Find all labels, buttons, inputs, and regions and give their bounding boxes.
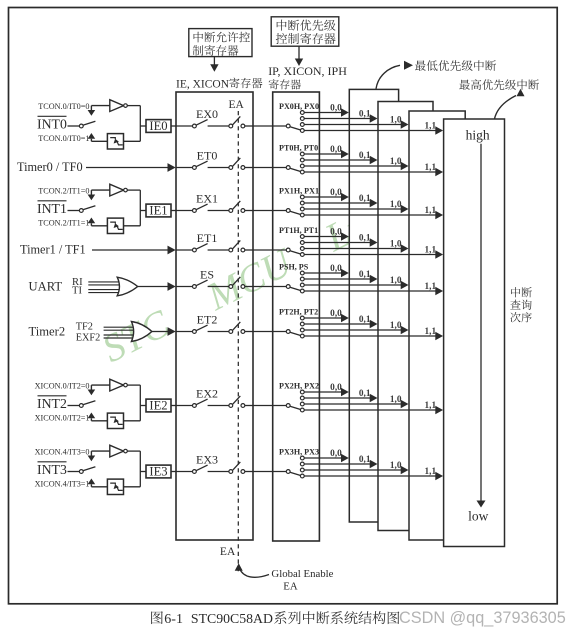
label TCON.2/IT1=0 — [38, 186, 89, 195]
wire edge detector output — [124, 140, 141, 142]
priority selector switch (PX2H, PX2) — [286, 404, 300, 410]
svg-text:TCON.0/IT0=0: TCON.0/IT0=0 — [38, 102, 89, 111]
svg-text:1,1: 1,1 — [424, 282, 436, 292]
svg-text:TI: TI — [72, 286, 82, 297]
svg-text:1,0: 1,0 — [390, 461, 402, 471]
priority line 1,0 (PT2H, PT2) — [304, 321, 408, 334]
svg-text:0,1: 0,1 — [359, 233, 371, 243]
label interrupt polling order — [510, 287, 532, 322]
label EA below column — [220, 546, 236, 558]
svg-text:EA: EA — [220, 546, 236, 558]
priority line 1,1 (PT2H, PT2) — [304, 327, 443, 340]
input pin INT3 — [37, 462, 67, 477]
svg-text:EX3: EX3 — [196, 452, 218, 466]
enable switch EX1 — [176, 191, 229, 212]
wire merge node — [140, 385, 146, 421]
svg-text:1,1: 1,1 — [424, 206, 436, 216]
priority line 1,1 (PSH, PS) — [304, 282, 443, 295]
edge detector INT3 — [107, 479, 123, 494]
svg-text:PSH, PS: PSH, PS — [279, 263, 309, 272]
svg-text:XICON.0/IT2=1: XICON.0/IT2=1 — [35, 414, 90, 423]
wire EX3 to priority selector — [253, 471, 286, 473]
svg-text:TCON.2/IT1=1: TCON.2/IT1=1 — [38, 219, 89, 228]
svg-text:TCON.2/IT1=0: TCON.2/IT1=0 — [38, 186, 89, 195]
EA global-enable dashed line — [237, 111, 239, 573]
svg-text:Global Enable: Global Enable — [271, 568, 333, 580]
enable switch ET0 — [176, 148, 229, 169]
arrow from priority-register box to IP column — [295, 46, 303, 66]
input UART — [29, 277, 84, 297]
priority line 0,1 (PSH, PS) — [304, 270, 377, 283]
priority line 0,0 (PX3H, PX3) — [304, 449, 349, 462]
svg-text:STCMCULtd: STCMCULtd — [95, 197, 385, 371]
priority line 0,0 (PX1H, PX1) — [304, 188, 349, 201]
wire from pin to selector switch — [68, 210, 80, 212]
edge detector INT0 — [107, 134, 123, 149]
wire ET2 to priority selector — [253, 331, 286, 333]
svg-text:1,1: 1,1 — [424, 467, 436, 477]
priority level column 1,0 — [409, 111, 465, 540]
priority selector switch (PT0H, PT0) — [286, 166, 300, 172]
svg-text:XICON.0/IT2=0: XICON.0/IT2=0 — [35, 381, 90, 390]
priority selector switch (PSH, PS) — [286, 285, 300, 291]
svg-text:0,1: 0,1 — [359, 151, 371, 161]
interrupt flag latch IE3 — [146, 465, 171, 479]
input Timer0 / TF0 — [17, 160, 83, 174]
priority selector switch (PX0H, PX0) — [286, 124, 300, 130]
svg-text:PT2H, PT2: PT2H, PT2 — [279, 308, 318, 317]
priority level contacts (PSH, PS) — [300, 271, 304, 293]
selector switch (trigger mode) — [79, 121, 95, 128]
svg-text:XICON.4/IT3=1: XICON.4/IT3=1 — [35, 480, 90, 489]
svg-text:0,0: 0,0 — [330, 383, 342, 393]
lower contact (edge trigger) — [88, 479, 108, 487]
IP XICON IPH register column box — [273, 92, 320, 541]
svg-text:STC90C58AD: STC90C58AD — [191, 611, 273, 626]
svg-text:Timer0 / TF0: Timer0 / TF0 — [17, 160, 83, 174]
watermark STC MCU Ltd — [95, 197, 385, 371]
wire EX1 to priority selector — [253, 210, 286, 212]
priority line 1,1 (PT0H, PT0) — [304, 163, 443, 176]
wire edge detector output — [124, 420, 141, 422]
priority level column 0,1 — [378, 102, 433, 531]
EA master switch on row EX3 — [229, 462, 253, 474]
svg-text:0,1: 0,1 — [359, 389, 371, 399]
lower contact (edge trigger) — [88, 413, 108, 421]
priority group label PT0H, PT0 — [279, 144, 318, 153]
svg-text:0,0: 0,0 — [330, 449, 342, 459]
priority line 1,0 (PX3H, PX3) — [304, 461, 408, 474]
EA master switch on row EX2 — [229, 396, 253, 408]
wire inverter output — [127, 450, 140, 452]
label TCON.2/IT1=1 — [38, 219, 89, 228]
svg-text:XICON.4/IT3=0: XICON.4/IT3=0 — [35, 447, 90, 456]
edge detector INT1 — [107, 218, 123, 233]
enable switch EX3 — [176, 452, 229, 473]
selector switch (trigger mode) — [79, 401, 95, 408]
wire from pin to selector switch — [68, 125, 80, 127]
svg-text:ET2: ET2 — [197, 312, 218, 326]
priority line 1,0 (PX1H, PX1) — [304, 200, 408, 213]
svg-text:IE2: IE2 — [149, 399, 167, 413]
svg-text:ES: ES — [200, 267, 214, 281]
priority line 0,0 (PT0H, PT0) — [304, 145, 349, 158]
svg-text:TCON.0/IT0=1: TCON.0/IT0=1 — [38, 134, 89, 143]
priority line 1,1 (PX1H, PX1) — [304, 206, 443, 219]
wire from pin to selector switch — [68, 405, 80, 407]
priority line 0,0 (PX0H, PX0) — [304, 103, 349, 116]
svg-text:IP, XICON, IPH: IP, XICON, IPH — [268, 64, 347, 78]
wire merge node — [140, 106, 146, 142]
priority selector switch (PX1H, PX1) — [286, 209, 300, 215]
interrupt polling sequence box — [444, 119, 505, 547]
upper contact (level trigger) — [88, 385, 110, 395]
OR gate UART RI TI — [117, 277, 138, 296]
svg-text:high: high — [466, 127, 490, 142]
EA master switch on row EX1 — [229, 201, 253, 213]
svg-text:0,0: 0,0 — [330, 103, 342, 113]
priority level contacts (PX1H, PX1) — [300, 195, 304, 217]
svg-text:1,1: 1,1 — [424, 245, 436, 255]
svg-text:0,1: 0,1 — [359, 270, 371, 280]
priority line 0,1 (PX1H, PX1) — [304, 194, 377, 207]
priority line 0,1 (PX2H, PX2) — [304, 389, 377, 402]
input pin INT0 — [37, 116, 67, 131]
svg-text:Timer1 / TF1: Timer1 / TF1 — [20, 243, 86, 257]
priority line 1,0 (PT1H, PT1) — [304, 239, 408, 252]
enable switch ES — [176, 267, 229, 288]
interrupt flag latch IE1 — [146, 204, 171, 218]
svg-text:EA: EA — [229, 99, 245, 111]
priority line 1,0 (PX0H, PX0) — [304, 115, 408, 128]
priority group label PX0H, PX0 — [279, 102, 319, 111]
wire IE1 to IE column — [171, 210, 176, 212]
svg-text:Timer2: Timer2 — [29, 325, 66, 339]
priority selector switch (PT2H, PT2) — [286, 330, 300, 336]
priority level contacts (PX2H, PX2) — [300, 390, 304, 412]
wire ET1 to priority selector — [253, 249, 286, 251]
label XICON.4/IT3=1 — [35, 480, 90, 489]
polling order arrow (high to low) — [477, 144, 486, 508]
priority line 0,0 (PX2H, PX2) — [304, 383, 349, 396]
EA master switch on row EX0 — [229, 116, 253, 128]
svg-text:PT0H, PT0: PT0H, PT0 — [279, 144, 318, 153]
priority selector switch (PT1H, PT1) — [286, 248, 300, 254]
label TCON.0/IT0=1 — [38, 134, 89, 143]
CSDN watermark — [399, 609, 566, 627]
svg-text:EA: EA — [283, 581, 298, 593]
priority level contacts (PT0H, PT0) — [300, 152, 304, 174]
svg-text:1,1: 1,1 — [424, 327, 436, 337]
priority level contacts (PX3H, PX3) — [300, 456, 304, 478]
upper contact (level trigger) — [88, 190, 110, 200]
selector switch (trigger mode) — [79, 467, 95, 474]
priority group label PT1H, PT1 — [279, 226, 318, 235]
wire merge node — [140, 190, 146, 226]
selector switch (trigger mode) — [79, 206, 95, 213]
priority level contacts (PT2H, PT2) — [300, 316, 304, 338]
wire inverter output — [127, 189, 140, 191]
annotation lowest priority interrupt — [376, 60, 496, 89]
caption figure 6-1 — [151, 611, 399, 627]
svg-text:0,0: 0,0 — [330, 227, 342, 237]
annotation global enable EA — [235, 563, 334, 592]
inverter INT3 level path — [110, 445, 127, 457]
svg-text:0,1: 0,1 — [359, 315, 371, 325]
wire Timer2 OR output to IE column — [152, 327, 176, 336]
inverter INT2 level path — [110, 379, 127, 391]
svg-text:PX3H, PX3: PX3H, PX3 — [279, 448, 319, 457]
svg-text:INT0: INT0 — [37, 117, 67, 132]
upper contact (level trigger) — [88, 451, 110, 461]
arrow from enable-register box to IE column — [210, 57, 218, 72]
label EA (top of EA switch column) — [229, 99, 245, 111]
inverter INT0 level path — [110, 100, 127, 112]
enable switch EX2 — [176, 386, 229, 407]
wire ES to priority selector — [253, 286, 286, 288]
svg-text:IE1: IE1 — [149, 204, 167, 218]
IE XICON register column box — [176, 92, 253, 540]
priority line 1,1 (PX0H, PX0) — [304, 121, 443, 134]
wire TF2 — [104, 327, 134, 330]
wire ET0 to priority selector — [253, 167, 286, 169]
svg-text:0,1: 0,1 — [359, 109, 371, 119]
svg-text:low: low — [468, 508, 489, 523]
label high — [466, 127, 490, 142]
priority line 0,0 (PT2H, PT2) — [304, 309, 349, 322]
svg-text:EX0: EX0 — [196, 107, 218, 121]
wire Timer1 / TF1 to IE column — [92, 246, 176, 255]
priority level contacts (PX0H, PX0) — [300, 111, 304, 133]
priority line 0,0 (PT1H, PT1) — [304, 227, 349, 240]
enable switch EX0 — [176, 107, 229, 128]
input pin INT1 — [37, 201, 67, 216]
interrupt flag latch IE0 — [146, 119, 171, 133]
svg-text:ET0: ET0 — [197, 148, 218, 162]
interrupt flag latch IE2 — [146, 399, 171, 413]
wire from pin to selector switch — [68, 471, 80, 473]
OR gate Timer2 TF2 EXF2 — [131, 322, 152, 342]
priority line 1,1 (PX3H, PX3) — [304, 467, 443, 480]
wire IE2 to IE column — [171, 405, 176, 407]
wire EX2 to priority selector — [253, 405, 286, 407]
priority line 1,0 (PT0H, PT0) — [304, 157, 408, 170]
wire TI — [88, 290, 119, 293]
priority line 0,1 (PX3H, PX3) — [304, 455, 377, 468]
edge detector INT2 — [107, 413, 123, 428]
lower contact (edge trigger) — [88, 218, 108, 226]
wire IE0 to IE column — [171, 125, 176, 127]
wire edge detector output — [124, 486, 141, 488]
priority line 1,0 (PSH, PS) — [304, 276, 408, 289]
wire UART OR output to IE column — [138, 282, 176, 291]
svg-text:1,0: 1,0 — [390, 321, 402, 331]
svg-text:1,1: 1,1 — [424, 401, 436, 411]
svg-text:0,0: 0,0 — [330, 188, 342, 198]
priority line 0,0 (PSH, PS) — [304, 264, 349, 277]
enable switch ET1 — [176, 231, 229, 252]
svg-text:6-1: 6-1 — [164, 612, 183, 627]
wire inverter output — [127, 384, 140, 386]
svg-text:INT1: INT1 — [37, 201, 67, 216]
svg-text:ET1: ET1 — [197, 231, 218, 245]
label TCON.0/IT0=0 — [38, 102, 89, 111]
svg-text:PX1H, PX1: PX1H, PX1 — [279, 187, 319, 196]
svg-text:0,0: 0,0 — [330, 145, 342, 155]
wire IE3 to IE column — [171, 471, 176, 473]
label XICON.0/IT2=0 — [35, 381, 90, 390]
priority line 0,1 (PT1H, PT1) — [304, 233, 377, 246]
svg-text:1,0: 1,0 — [390, 276, 402, 286]
EA master switch on row ET1 — [229, 240, 253, 252]
label XICON.0/IT2=1 — [35, 414, 90, 423]
wire inverter output — [127, 105, 140, 107]
svg-text:1,0: 1,0 — [390, 239, 402, 249]
priority line 1,0 (PX2H, PX2) — [304, 395, 408, 408]
svg-text:PT1H, PT1: PT1H, PT1 — [279, 226, 318, 235]
priority selector switch (PX3H, PX3) — [286, 470, 300, 476]
wire RI — [88, 282, 119, 285]
wire edge detector output — [124, 225, 141, 227]
svg-text:PX0H, PX0: PX0H, PX0 — [279, 102, 319, 111]
svg-text:INT3: INT3 — [37, 462, 67, 477]
svg-text:UART: UART — [29, 280, 63, 294]
svg-text:IE, XICON: IE, XICON — [176, 78, 230, 90]
label low — [468, 508, 489, 523]
priority line 0,1 (PX0H, PX0) — [304, 109, 377, 122]
svg-text:1,0: 1,0 — [390, 157, 402, 167]
label IE, XICON register — [176, 78, 262, 91]
input Timer2 — [29, 322, 101, 344]
svg-text:1,0: 1,0 — [390, 200, 402, 210]
svg-text:1,1: 1,1 — [424, 121, 436, 131]
svg-text:CSDN @qq_37936305: CSDN @qq_37936305 — [399, 609, 566, 627]
EA master switch on row ET2 — [229, 322, 253, 334]
enable switch ET2 — [176, 312, 229, 333]
annotation box: interrupt enable control register — [189, 29, 252, 57]
svg-text:PX2H, PX2: PX2H, PX2 — [279, 382, 319, 391]
priority line 1,1 (PX2H, PX2) — [304, 401, 443, 414]
svg-text:0,1: 0,1 — [359, 194, 371, 204]
wire merge node — [140, 451, 146, 487]
svg-text:0,1: 0,1 — [359, 455, 371, 465]
wire EX0 to priority selector — [253, 125, 286, 127]
input pin INT2 — [37, 396, 67, 411]
annotation highest priority interrupt — [459, 79, 539, 119]
priority line 0,1 (PT2H, PT2) — [304, 315, 377, 328]
priority level contacts (PT1H, PT1) — [300, 235, 304, 257]
priority group label PX3H, PX3 — [279, 448, 319, 457]
priority line 0,1 (PT0H, PT0) — [304, 151, 377, 164]
label XICON.4/IT3=0 — [35, 447, 90, 456]
upper contact (level trigger) — [88, 106, 110, 116]
svg-text:0,0: 0,0 — [330, 309, 342, 319]
EA master switch on row ES — [229, 277, 253, 289]
svg-text:1,1: 1,1 — [424, 163, 436, 173]
priority line 1,1 (PT1H, PT1) — [304, 245, 443, 258]
wire Timer0 / TF0 to IE column — [86, 163, 176, 172]
svg-text:EX1: EX1 — [196, 191, 218, 205]
lower contact (edge trigger) — [88, 133, 108, 141]
priority group label PSH, PS — [279, 263, 309, 272]
svg-text:EXF2: EXF2 — [76, 333, 101, 344]
priority group label PX2H, PX2 — [279, 382, 319, 391]
input Timer1 / TF1 — [20, 243, 86, 257]
inverter INT1 level path — [110, 184, 127, 196]
svg-text:INT2: INT2 — [37, 396, 67, 411]
priority group label PT2H, PT2 — [279, 308, 318, 317]
svg-text:EX2: EX2 — [196, 386, 218, 400]
wire EXF2 — [104, 335, 134, 338]
priority group label PX1H, PX1 — [279, 187, 319, 196]
svg-text:IE0: IE0 — [149, 119, 167, 133]
svg-text:0,0: 0,0 — [330, 264, 342, 274]
svg-text:1,0: 1,0 — [390, 395, 402, 405]
priority level column 0,0 — [349, 89, 398, 522]
annotation box: interrupt priority control register — [271, 17, 339, 46]
svg-text:IE3: IE3 — [149, 465, 167, 479]
EA master switch on row ET0 — [229, 158, 253, 170]
label IP, XICON, IPH register — [268, 64, 347, 89]
svg-text:1,0: 1,0 — [390, 115, 402, 125]
svg-text:TF2: TF2 — [76, 322, 93, 333]
